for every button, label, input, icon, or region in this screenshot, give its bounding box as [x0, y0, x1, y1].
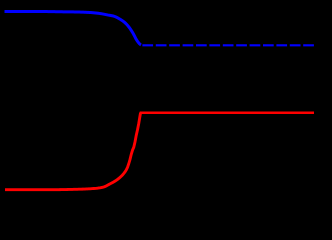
red horizontal saturation line	[140, 111, 314, 114]
red curve: rising branch	[5, 113, 141, 190]
blue curve: solid descending branch	[5, 12, 142, 45]
blue dashed horizontal asymptote	[142, 44, 314, 46]
